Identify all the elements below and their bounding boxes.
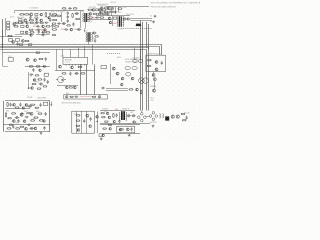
resistor R53 bbox=[39, 120, 44, 121]
wire drop x86 bbox=[86, 64, 88, 94]
relay coil K2 bbox=[132, 66, 137, 70]
vertical IC U2 box bbox=[44, 73, 48, 76]
diode D9 bbox=[126, 18, 130, 20]
posistor PTC1 box bbox=[8, 39, 12, 42]
transistor Q52 bbox=[89, 125, 92, 128]
capacitor C20 bbox=[74, 96, 78, 98]
resistor R115 bbox=[7, 118, 11, 119]
svg-text:R808: R808 bbox=[33, 118, 36, 120]
resistor R118 bbox=[104, 121, 108, 122]
svg-text:R801: R801 bbox=[6, 111, 9, 113]
transistor Q4 bbox=[24, 19, 27, 22]
diode D11 bbox=[39, 83, 43, 85]
capacitor C104 bbox=[41, 34, 45, 36]
relay contact E4 bbox=[138, 60, 142, 63]
wire box v3 bbox=[86, 111, 88, 133]
capacitor C110 bbox=[9, 103, 11, 107]
connector CN3 box bbox=[101, 66, 107, 69]
resistor R105 bbox=[53, 34, 56, 35]
diode D5 bbox=[97, 13, 101, 15]
resistor R66 bbox=[182, 120, 186, 121]
svg-text:E1: E1 bbox=[150, 16, 152, 18]
fuse F1 box bbox=[7, 22, 10, 24]
wire amp rail2 bbox=[5, 108, 30, 110]
capacitor C21 bbox=[101, 87, 105, 89]
resistor R64 bbox=[119, 129, 123, 130]
svg-text:V1: V1 bbox=[30, 76, 32, 78]
resistor R103 bbox=[39, 22, 43, 23]
connector harness CN2 box bbox=[64, 95, 108, 99]
capacitor C112 bbox=[20, 112, 24, 114]
svg-text:C807: C807 bbox=[15, 122, 18, 124]
svg-text:P2: P2 bbox=[42, 30, 44, 32]
transistor Q34 bbox=[131, 77, 134, 80]
wire drop bbox=[14, 10, 16, 13]
capacitor C28 bbox=[83, 119, 85, 123]
svg-text:C618: C618 bbox=[64, 10, 68, 12]
transistor Q12 bbox=[107, 13, 110, 16]
capacitor C9 bbox=[67, 19, 69, 23]
resistor R32 bbox=[29, 66, 32, 67]
resistor R43 bbox=[140, 90, 141, 95]
wire dashed focus line bbox=[121, 28, 152, 30]
resistor R57 bbox=[76, 115, 80, 116]
transistor Q10 bbox=[92, 9, 95, 12]
diode D4 bbox=[98, 9, 102, 11]
damper D7 box bbox=[113, 17, 116, 19]
wire dashed option bbox=[107, 53, 120, 55]
resistor R56 bbox=[15, 128, 20, 129]
relay coil K3 bbox=[126, 72, 131, 76]
IC U3 jungle box bbox=[63, 57, 88, 65]
resistor R20 bbox=[102, 13, 107, 14]
resistor R4 bbox=[45, 12, 47, 17]
resistor R15 bbox=[72, 13, 74, 18]
wire row rail tl2a bbox=[15, 34, 34, 36]
wire Q40 to Q41 bbox=[154, 81, 156, 89]
transistor Q105 bbox=[22, 107, 24, 109]
resistor R11 bbox=[29, 32, 34, 34]
svg-text:SOUND: SOUND bbox=[27, 97, 33, 99]
transistor Q21 bbox=[26, 58, 29, 61]
wire box to Q39 bbox=[153, 72, 155, 74]
capacitor C107 bbox=[68, 7, 72, 9]
transistor Q31 bbox=[112, 67, 115, 70]
wire bottom rail b bbox=[100, 124, 140, 126]
capacitor C17 bbox=[32, 68, 34, 72]
wire box v1 bbox=[76, 111, 78, 133]
diode D1 bbox=[41, 31, 45, 33]
capacitor C109 bbox=[47, 80, 49, 84]
paper background bbox=[0, 0, 200, 142]
resistor R59 bbox=[76, 125, 80, 126]
ground amp bbox=[40, 132, 43, 135]
transistor Q60 regulator bbox=[176, 115, 179, 118]
svg-text:D921 R922: D921 R922 bbox=[150, 122, 157, 124]
wire drop s6 bbox=[92, 45, 94, 65]
wire drop to Q24 bbox=[28, 72, 30, 88]
transistor Q104 bbox=[31, 87, 34, 90]
regulator IC2 box bbox=[96, 9, 99, 11]
transistor Q48 bbox=[25, 127, 28, 130]
capacitor C116 bbox=[130, 127, 132, 131]
resistor R17 bbox=[52, 29, 57, 31]
resistor R36 bbox=[78, 66, 83, 67]
wire row power top bbox=[100, 110, 135, 112]
capacitor C14 bbox=[37, 29, 41, 31]
transistor Q32 bbox=[116, 72, 119, 75]
wire drop x95 bbox=[94, 64, 96, 94]
transistor Q43 bbox=[25, 104, 28, 107]
transistor Q36 bbox=[121, 83, 124, 86]
capacitor C27 bbox=[43, 126, 45, 130]
transistor Q108 bbox=[119, 128, 122, 131]
capacitor C13 bbox=[108, 11, 112, 13]
svg-text:Q901: Q901 bbox=[104, 111, 108, 113]
diode D106 bbox=[132, 121, 136, 123]
capacitor C26 bbox=[17, 119, 19, 123]
resistor R8 bbox=[13, 26, 18, 28]
diode D13 bbox=[127, 115, 131, 117]
capacitor C1 bbox=[49, 12, 51, 16]
resistor R60 bbox=[100, 113, 104, 114]
relay RL1 box bbox=[19, 19, 22, 21]
svg-text:P3: P3 bbox=[45, 30, 47, 32]
resistor R3 bbox=[24, 14, 29, 16]
resistor R51 bbox=[34, 117, 39, 118]
transistor Q7 bbox=[42, 25, 45, 28]
transistor Q27 bbox=[65, 86, 68, 89]
transistor Q29 bbox=[66, 96, 68, 98]
capacitor C30 bbox=[115, 113, 117, 117]
resistor R101 bbox=[15, 22, 19, 23]
resistor R119 bbox=[109, 124, 112, 125]
wire EHT rail a bbox=[130, 18, 152, 20]
wire drop v1 bbox=[111, 6, 113, 16]
resistor R106 bbox=[52, 23, 56, 24]
junction node right bbox=[97, 121, 98, 122]
capacitor C8 bbox=[67, 15, 69, 19]
capacitor C29 bbox=[89, 117, 91, 121]
transistor Q58 bbox=[126, 128, 129, 131]
wire row3 bbox=[57, 85, 78, 87]
svg-text:D902: D902 bbox=[130, 112, 133, 114]
transistor Q54 bbox=[102, 134, 105, 137]
diode D10 bbox=[42, 65, 46, 67]
svg-text:R803: R803 bbox=[36, 111, 39, 113]
capacitor C5 bbox=[51, 24, 53, 28]
transistor Q50 bbox=[86, 114, 89, 117]
wire drop to S602 bbox=[140, 49, 142, 59]
resistor R40 bbox=[70, 96, 74, 97]
capacitor C18 bbox=[43, 78, 45, 82]
transistor Q9 bbox=[70, 28, 73, 31]
wire drop x80 bbox=[80, 64, 82, 94]
svg-text:T501: T501 bbox=[81, 11, 85, 13]
transformer T1 SMPS bbox=[83, 13, 90, 22]
capacitor C19 bbox=[69, 72, 71, 76]
wire vertical drop x149a bbox=[148, 24, 150, 49]
transistor Q55 bbox=[106, 112, 109, 115]
svg-text:R705: R705 bbox=[36, 81, 40, 83]
svg-text:C541: C541 bbox=[123, 7, 127, 9]
resistor R27 bbox=[25, 40, 30, 41]
wire amp left rail bbox=[3, 101, 5, 132]
resistor R55 bbox=[7, 128, 12, 129]
svg-text:P801: P801 bbox=[66, 93, 69, 95]
resistor R113 bbox=[15, 107, 19, 108]
transistor Q35 bbox=[136, 88, 139, 91]
resistor R114 bbox=[35, 107, 39, 108]
wire left stub bbox=[3, 66, 9, 68]
varistor RV1 box bbox=[7, 28, 10, 30]
wire secondary gnd rail bbox=[86, 19, 112, 21]
transistor Q101 bbox=[26, 22, 28, 24]
transistor Q26 bbox=[71, 66, 74, 69]
transistor Q45 bbox=[30, 112, 33, 115]
resistor R52 bbox=[30, 120, 35, 121]
resistor R2 bbox=[19, 14, 24, 16]
svg-text:POWER IN: POWER IN bbox=[122, 108, 129, 110]
wire T1 to choke bbox=[84, 29, 86, 33]
wire bottom rail a bbox=[100, 123, 150, 125]
wire left vertical bus bbox=[2, 19, 4, 48]
wire mains bottom bbox=[0, 36, 22, 38]
transistor Q14 bbox=[108, 7, 111, 10]
resistor R18 bbox=[87, 9, 92, 10]
resistor R120 bbox=[94, 36, 98, 37]
wire left vertical lower bbox=[2, 48, 4, 66]
capacitor C6 bbox=[38, 30, 40, 34]
ground speaker bbox=[100, 137, 103, 140]
resistor R61 bbox=[101, 117, 105, 118]
resistor R37 bbox=[62, 73, 67, 74]
wire to B+ bbox=[107, 9, 113, 11]
transistor Q5 bbox=[40, 19, 43, 22]
transistor Q23 bbox=[39, 69, 42, 72]
resistor R63 bbox=[102, 128, 106, 129]
capacitor C102 bbox=[44, 22, 48, 24]
capacitor C2 bbox=[35, 18, 37, 22]
resistor R41 bbox=[92, 96, 96, 97]
transistor Q51 bbox=[77, 129, 80, 132]
svg-text:CN1: CN1 bbox=[9, 56, 12, 58]
wire bus line 1 bbox=[0, 45, 162, 56]
transistor Q40 bbox=[153, 78, 156, 81]
svg-text:E2: E2 bbox=[150, 21, 152, 23]
wire red jumper bbox=[80, 96, 93, 98]
ground chassis 1 bbox=[154, 15, 157, 18]
ground chassis 2 bbox=[152, 20, 155, 23]
wire vertical drop x146a bbox=[146, 22, 148, 48]
svg-text:H-DRIVE: H-DRIVE bbox=[102, 108, 108, 110]
lamp LP1 bbox=[139, 78, 145, 84]
svg-text:R611: R611 bbox=[61, 29, 65, 31]
capacitor C23 bbox=[19, 103, 21, 107]
wire drop s3 bbox=[70, 49, 72, 57]
junction heavy node bbox=[28, 87, 30, 89]
relay RL2 box bbox=[19, 21, 22, 23]
resistor R25 bbox=[112, 11, 117, 12]
wire vertical drop x140 bbox=[140, 21, 142, 111]
resistor R7 bbox=[52, 19, 57, 21]
resistor R9 bbox=[45, 26, 50, 28]
resistor R65 bbox=[181, 113, 185, 114]
wire T2 left drop bbox=[112, 16, 114, 26]
wire center rail2 bbox=[96, 15, 130, 17]
IC U4 amp box bbox=[43, 102, 47, 105]
capacitor C114 bbox=[12, 125, 14, 129]
wire top center rail bbox=[106, 6, 149, 8]
transistor Q22 bbox=[34, 59, 37, 62]
wire mains L bbox=[5, 18, 7, 36]
transistor Q57 bbox=[109, 128, 112, 131]
transistor Q8 bbox=[25, 31, 28, 34]
diode D14 bbox=[131, 115, 135, 117]
capacitor C108 bbox=[29, 73, 33, 75]
resistor R48 bbox=[5, 112, 6, 117]
wire vertical drop x149b bbox=[148, 58, 150, 111]
line filter coil L1 bbox=[159, 114, 163, 118]
fuse block shaded bbox=[165, 116, 169, 120]
ground mains bbox=[152, 125, 155, 128]
wire to bridge2 bbox=[146, 116, 149, 118]
transformer T4 choke bbox=[86, 32, 93, 42]
capacitor C31 bbox=[185, 116, 187, 120]
wire amp right rail bbox=[49, 101, 51, 132]
svg-text:FOCUS: FOCUS bbox=[118, 28, 123, 30]
resistor R112 bbox=[37, 88, 41, 89]
resistor R19 bbox=[93, 13, 98, 14]
wire mid rail bbox=[3, 52, 51, 54]
resistor R44 bbox=[147, 60, 151, 61]
bridge rectifier BR1 bbox=[138, 111, 147, 122]
svg-text:C510 R511: C510 R511 bbox=[89, 7, 97, 9]
wire drop s5 bbox=[84, 46, 86, 57]
transistor Q16 HOT bbox=[108, 17, 111, 20]
diode D103 bbox=[28, 105, 32, 107]
svg-text:IC-TDA4601: IC-TDA4601 bbox=[29, 7, 38, 10]
transistor Q3 bbox=[40, 13, 43, 16]
resistor R35 bbox=[32, 83, 37, 84]
resistor R5 bbox=[52, 14, 57, 16]
svg-text:R609: R609 bbox=[33, 24, 37, 26]
relay unit box bbox=[146, 55, 166, 71]
resistor R39 bbox=[69, 87, 72, 88]
transistor Q13 bbox=[101, 7, 104, 10]
wire box v2 bbox=[81, 111, 83, 133]
resistor R12 bbox=[45, 32, 50, 34]
resistor R111 bbox=[43, 86, 47, 87]
diode D12 bbox=[74, 72, 78, 74]
wire bus line 2 bbox=[0, 47, 160, 56]
resistor R22 bbox=[100, 17, 105, 18]
wire stub tick bbox=[50, 104, 52, 106]
diode D3 bbox=[77, 28, 81, 30]
transistor Q59 regulator bbox=[171, 115, 174, 118]
wire EHT rail b bbox=[130, 20, 152, 22]
wire bus line 4 bbox=[0, 50, 147, 56]
resistor R26 bbox=[29, 29, 34, 30]
wire amp rail3 bbox=[3, 124, 50, 126]
transistor Q47 bbox=[23, 120, 26, 123]
wire drop to S601 bbox=[134, 48, 136, 60]
wire row rail tl2b bbox=[36, 34, 50, 36]
wire row5 bbox=[106, 90, 128, 92]
diode D107 bbox=[92, 32, 96, 34]
diode bridge DB2 bbox=[21, 25, 24, 27]
wire top rail bbox=[15, 10, 84, 12]
wire amp bottom rail bbox=[5, 131, 50, 133]
degauss relay box bbox=[15, 39, 19, 42]
wire left drop2 bbox=[2, 30, 4, 48]
capacitor C7 bbox=[67, 11, 69, 15]
svg-text:D444 C445: D444 C445 bbox=[126, 14, 134, 16]
svg-text:C921: C921 bbox=[127, 124, 131, 126]
wire choke to bus bbox=[88, 42, 90, 45]
resistor R38 bbox=[81, 73, 86, 74]
capacitor C22 bbox=[161, 61, 163, 65]
transistor Q11 bbox=[89, 13, 92, 16]
capacitor C15 bbox=[16, 42, 18, 46]
wire vertical drop x143 bbox=[142, 22, 144, 111]
resistor R54 bbox=[9, 124, 12, 125]
wire primary feed bbox=[80, 10, 82, 28]
transistor Q102 bbox=[48, 17, 50, 19]
anode cap shaded bbox=[136, 24, 142, 27]
resistor R29 bbox=[28, 44, 32, 46]
capacitor C105 bbox=[57, 22, 61, 24]
capacitor C111 bbox=[39, 103, 41, 107]
capacitor C16 bbox=[45, 57, 47, 61]
resistor R58 bbox=[76, 120, 80, 121]
capacitor C103 bbox=[29, 16, 31, 20]
wire row4 bbox=[106, 88, 128, 90]
capacitor C3 bbox=[49, 18, 51, 22]
relay contact E3 bbox=[133, 60, 137, 63]
connector CN1 box bbox=[8, 58, 13, 62]
transistor Q25 bbox=[59, 65, 62, 68]
resistor R42 bbox=[129, 89, 134, 90]
resistor R33 bbox=[36, 66, 39, 67]
wire snubber drop bbox=[61, 12, 63, 22]
transistor Q18 bbox=[44, 29, 47, 32]
transistor Q39 bbox=[152, 74, 155, 77]
transistor Q106 bbox=[43, 120, 46, 123]
wire vertical drop x146b bbox=[146, 55, 148, 110]
capacitor C106 bbox=[72, 22, 74, 26]
transistor Q15 bbox=[100, 11, 103, 14]
svg-text:P1: P1 bbox=[35, 30, 37, 32]
transistor Q53 bbox=[96, 115, 99, 118]
wire row bbox=[25, 66, 50, 68]
lamp LP2 bbox=[143, 78, 149, 84]
resistor R104 bbox=[35, 17, 38, 18]
transistor Q20 bbox=[21, 40, 24, 43]
svg-text:C912: C912 bbox=[150, 100, 154, 102]
resistor R109 bbox=[73, 8, 77, 9]
resistor R24 bbox=[103, 11, 108, 12]
wire drop x110 bbox=[110, 64, 112, 84]
transistor Q103 bbox=[30, 34, 32, 36]
svg-text:R444: R444 bbox=[113, 23, 117, 25]
resistor R16 bbox=[75, 18, 80, 20]
transistor Q41 bbox=[152, 89, 155, 92]
diode D104 bbox=[15, 116, 19, 118]
CRT neck circle V2 bbox=[56, 77, 66, 83]
svg-text:R604 C605: R604 C605 bbox=[17, 17, 24, 19]
transistor Q33 bbox=[121, 77, 124, 80]
